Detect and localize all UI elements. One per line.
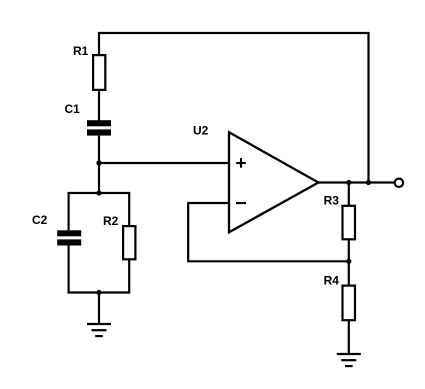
wire feedback: - input around to R3/R4 node: [188, 203, 349, 261]
wire node to R4: [348, 261, 350, 285]
capacitor C1: [87, 120, 111, 135]
resistor R4: [343, 286, 356, 321]
junction feedback / R4 node: [346, 259, 351, 264]
capacitor C2: [57, 230, 81, 245]
wire parallel loop top: C2 branch and R2 branch: [69, 193, 130, 230]
svg-text:R3: R3: [324, 193, 340, 207]
wire R3 bottom to feedback node: [348, 240, 350, 262]
terminal output: [395, 179, 403, 187]
svg-text:C2: C2: [32, 213, 48, 227]
wire op-amp output: [318, 181, 395, 183]
ground (right): [337, 354, 361, 366]
junction parallel-section top node: [96, 190, 101, 195]
resistor R1: [93, 55, 105, 90]
pin − (inverting): [236, 202, 246, 204]
resistor R3: [343, 206, 356, 240]
svg-text:R2: R2: [103, 214, 119, 228]
wire C1 bottom down through node to parallel section: [98, 136, 100, 193]
svg-text:U2: U2: [193, 124, 209, 138]
wire top rail: R1 top up, across, down to output node: [99, 33, 369, 183]
wire output node to R3: [348, 183, 350, 206]
wire node to ground: [98, 293, 100, 325]
junction output / top rail node: [366, 180, 371, 185]
junction output / R3 node: [346, 180, 351, 185]
wire parallel loop bottom: [69, 246, 130, 293]
pin + (non-inverting): [236, 158, 246, 168]
wire R4 bottom to ground: [348, 320, 350, 354]
junction + input node: [96, 160, 101, 165]
junction ground node of parallel section: [96, 290, 101, 295]
ground (left): [87, 324, 111, 336]
op-amp U2: [229, 132, 318, 232]
svg-text:R4: R4: [324, 274, 340, 288]
svg-text:R1: R1: [73, 44, 89, 58]
wire R1 bottom to C1 top: [98, 90, 100, 121]
resistor R2: [123, 226, 135, 259]
wire node to op-amp + input: [99, 162, 229, 164]
svg-text:C1: C1: [65, 102, 81, 116]
